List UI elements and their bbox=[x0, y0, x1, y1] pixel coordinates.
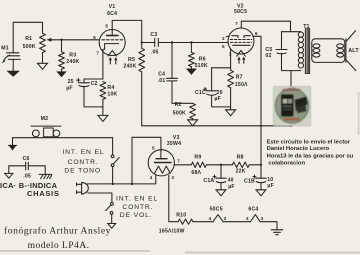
svg-text:C1A: C1A bbox=[203, 178, 214, 184]
V1 cathode bbox=[103, 44, 119, 79]
svg-text:Este circuito lo envio el lect: Este circuito lo envio el lector bbox=[267, 139, 351, 145]
earth ground end of heater string bbox=[271, 230, 283, 235]
speaker ALT bbox=[346, 31, 356, 71]
pin 2 stub + label bbox=[226, 35, 229, 37]
T1 secondary / voice-coil loop bbox=[312, 39, 345, 63]
svg-text:M1: M1 bbox=[1, 46, 9, 52]
chassis ground under M1 bbox=[6, 71, 20, 77]
resistor R6 510K (grid leak) bbox=[190, 43, 192, 53]
V2 heater chevron bbox=[237, 50, 246, 56]
resistor R3 240K bbox=[61, 40, 63, 52]
wire plug bottom to volume switch bbox=[88, 193, 112, 203]
scan streak bottom bbox=[0, 251, 360, 253]
resistor R7 150ohm bbox=[228, 70, 234, 87]
wire M2 rail to tone switch and B- bbox=[13, 138, 113, 146]
svg-text:6: 6 bbox=[93, 35, 96, 40]
svg-text:4: 4 bbox=[150, 175, 153, 180]
node wiper/R3 junction bbox=[60, 39, 62, 41]
svg-text:µF: µF bbox=[228, 184, 235, 190]
svg-text:fonógrafo Arthur Ansley: fonógrafo Arthur Ansley bbox=[4, 226, 111, 237]
svg-text:CHASIS: CHASIS bbox=[27, 189, 60, 198]
svg-text:6C4: 6C4 bbox=[248, 207, 258, 213]
svg-text:C6: C6 bbox=[23, 156, 30, 162]
wire R5 bottom to B+ rail bbox=[141, 72, 143, 126]
V1 plate bar bbox=[106, 35, 119, 37]
svg-text:R1: R1 bbox=[25, 36, 32, 42]
V2 cathode bar bbox=[233, 44, 250, 46]
svg-text:500K: 500K bbox=[23, 44, 36, 50]
svg-text:R6: R6 bbox=[199, 56, 206, 62]
svg-text:R10: R10 bbox=[176, 213, 186, 219]
B- arrow under C1A bbox=[216, 190, 227, 196]
svg-text:R8: R8 bbox=[237, 155, 244, 161]
svg-text:22K: 22K bbox=[236, 168, 246, 174]
capacitor C3 .05 coupling bbox=[142, 42, 229, 44]
svg-text:ALT: ALT bbox=[348, 48, 359, 54]
V3 heater double chevron bbox=[155, 166, 171, 173]
svg-text:R4: R4 bbox=[107, 85, 114, 91]
svg-text:R2: R2 bbox=[175, 102, 182, 108]
B- arrow (filled) under M2 left wire bbox=[8, 144, 16, 146]
svg-text:colaboracion: colaboracion bbox=[268, 161, 305, 167]
svg-text:Hora13 le da las gracias por s: Hora13 le da las gracias por su bbox=[267, 154, 354, 160]
svg-text:6C4: 6C4 bbox=[107, 11, 117, 17]
svg-text:T1: T1 bbox=[303, 24, 309, 30]
svg-text:3: 3 bbox=[261, 216, 264, 221]
svg-text:150Λ: 150Λ bbox=[235, 82, 248, 88]
svg-text:240K: 240K bbox=[123, 63, 136, 69]
resistor R8 22K bbox=[232, 162, 249, 167]
chassis ground under R6 bbox=[186, 69, 197, 75]
svg-text:25: 25 bbox=[68, 79, 74, 85]
svg-text:M2: M2 bbox=[41, 116, 49, 122]
B- arrow under R4/C2 bbox=[98, 115, 109, 121]
V3 plate bar bbox=[156, 158, 168, 160]
resistor R4 10K bbox=[100, 82, 106, 100]
switch volume control bbox=[106, 203, 114, 215]
svg-text:50C5: 50C5 bbox=[234, 9, 247, 15]
potentiometer R2 500K (tone) bbox=[190, 103, 196, 118]
svg-text:CONTR.: CONTR. bbox=[122, 204, 153, 211]
wire primary bottom to B+ rail bbox=[290, 71, 292, 126]
capacitor C1C 20uF bbox=[211, 68, 213, 91]
wire V3 cathode pin7 to R9 bbox=[174, 164, 191, 166]
svg-text:CONTR.: CONTR. bbox=[68, 159, 99, 166]
capacitor C2 25uF bbox=[84, 79, 103, 83]
AC plug bbox=[77, 182, 89, 194]
svg-text:240K: 240K bbox=[66, 59, 79, 65]
svg-text:DE VOL.: DE VOL. bbox=[120, 212, 153, 219]
svg-text:.05: .05 bbox=[151, 49, 159, 55]
svg-text:5: 5 bbox=[105, 24, 108, 29]
svg-text:V3: V3 bbox=[173, 135, 180, 141]
svg-text:C5: C5 bbox=[265, 47, 272, 53]
svg-text:6: 6 bbox=[255, 31, 258, 36]
svg-text:50C5: 50C5 bbox=[210, 207, 223, 213]
resistor R10 165ohm/10W bbox=[178, 219, 193, 224]
svg-text:4: 4 bbox=[209, 216, 212, 221]
V1 heater chevron bbox=[108, 51, 116, 56]
inset photo of radio bbox=[274, 86, 311, 125]
svg-text:3: 3 bbox=[224, 216, 227, 221]
svg-text:modelo LP4A.: modelo LP4A. bbox=[28, 240, 90, 251]
svg-text:4: 4 bbox=[246, 216, 249, 221]
R1 wiper arrow bbox=[50, 39, 62, 41]
svg-text:7: 7 bbox=[96, 51, 99, 56]
T1 primary winding bbox=[282, 32, 301, 71]
svg-text:.05: .05 bbox=[23, 173, 31, 179]
wire wiper junction to V1 grid pin 6 bbox=[62, 39, 100, 41]
capacitor C5 .02 across primary bbox=[281, 32, 283, 71]
B- arrow left of C6 bbox=[4, 173, 13, 178]
V2 beam plates bbox=[232, 36, 250, 38]
V1 heater pin arrows bbox=[110, 60, 116, 64]
pickup M1 bbox=[1, 46, 20, 64]
svg-text:C2: C2 bbox=[91, 81, 98, 87]
potentiometer R1 500K bbox=[40, 33, 46, 52]
svg-text:C1B: C1B bbox=[244, 179, 255, 185]
svg-text:R9: R9 bbox=[194, 154, 201, 160]
B- arrow under R7/C1C bbox=[225, 110, 236, 116]
node R6 tap bbox=[190, 41, 192, 43]
wire V3 plate to AC line bbox=[132, 137, 161, 184]
B- arrow under C1B bbox=[256, 190, 267, 196]
T1 core bbox=[305, 29, 310, 74]
contributor note text bbox=[267, 139, 354, 166]
svg-text:C3: C3 bbox=[150, 32, 157, 38]
op V1 6C4 triode bbox=[93, 4, 125, 79]
svg-text:3: 3 bbox=[171, 175, 174, 180]
capacitor C4 .01 bbox=[171, 43, 173, 79]
wire V2 cathode down bbox=[212, 49, 231, 68]
op V3 35W4 rectifier bbox=[148, 135, 181, 180]
capacitor C1A 40uF bbox=[220, 165, 222, 178]
wire V1 plate to top rail and down to R5/C3 node bbox=[112, 20, 142, 48]
chassis ground under R3 bbox=[56, 71, 67, 77]
6C4 heater bbox=[250, 215, 260, 222]
wire M1 top to R1 top bbox=[13, 22, 42, 52]
V2 heater pin arrows bbox=[239, 59, 244, 63]
capacitor C1B 10uF bbox=[260, 165, 262, 178]
svg-text:500K: 500K bbox=[173, 110, 186, 116]
resistor R9 68ohm bbox=[191, 162, 206, 167]
B- arrow under R2 bbox=[187, 120, 198, 126]
caption fonografo Arthur Ansley bbox=[4, 226, 111, 251]
motor M2 bbox=[31, 116, 61, 137]
svg-text:.01: .01 bbox=[158, 78, 166, 84]
svg-text:Daniel Horacio Lucero: Daniel Horacio Lucero bbox=[267, 146, 330, 152]
resistor R5 240K (plate load) bbox=[139, 48, 145, 72]
svg-text:10K: 10K bbox=[107, 92, 117, 98]
svg-text:2: 2 bbox=[222, 36, 225, 41]
switch tone control bbox=[111, 155, 119, 167]
wire M1 bottom bbox=[12, 60, 14, 71]
B+ rail wire bbox=[142, 125, 291, 127]
svg-text:35W4: 35W4 bbox=[167, 141, 181, 147]
svg-text:R3: R3 bbox=[69, 53, 76, 59]
V2 grids dashed bbox=[230, 39, 252, 41]
node plate/C3 junction bbox=[141, 41, 143, 43]
svg-text:R5: R5 bbox=[128, 57, 135, 63]
svg-text:INT. EN EL: INT. EN EL bbox=[116, 195, 158, 202]
svg-text:µF: µF bbox=[267, 183, 274, 189]
svg-text:R7: R7 bbox=[236, 75, 243, 81]
chassis hatch right of C6 bbox=[39, 174, 52, 178]
svg-text:C4: C4 bbox=[158, 72, 165, 78]
svg-text:INT. EN EL: INT. EN EL bbox=[62, 149, 104, 156]
svg-text:7: 7 bbox=[235, 21, 238, 26]
wire V2 plate to T1 primary top bbox=[241, 21, 290, 32]
svg-text:µF: µF bbox=[66, 86, 73, 92]
op V2 50C5 output pentode bbox=[222, 4, 258, 64]
svg-text:510K: 510K bbox=[195, 63, 208, 69]
capacitor C6 .05 line bypass bbox=[26, 162, 29, 170]
V1 grid (dashed) bbox=[102, 39, 123, 41]
50C5 heater bbox=[213, 215, 223, 222]
svg-text:165Λ/10W: 165Λ/10W bbox=[159, 229, 185, 235]
wire V2 screen pin6 down to B+ rail and C1B node bbox=[253, 36, 261, 165]
svg-text:C1C: C1C bbox=[195, 90, 206, 96]
V3 cathode bar bbox=[154, 162, 172, 164]
svg-text:40: 40 bbox=[228, 178, 234, 184]
B- arrow under R1 bbox=[37, 63, 48, 69]
wire V3 pin4 to AC line bbox=[87, 175, 155, 184]
svg-text:µF: µF bbox=[214, 96, 221, 102]
svg-text:V1: V1 bbox=[109, 4, 116, 10]
svg-text:68Λ: 68Λ bbox=[191, 170, 201, 176]
svg-text:5: 5 bbox=[152, 145, 155, 150]
svg-text:7: 7 bbox=[177, 159, 180, 164]
node C4 tap bbox=[171, 41, 173, 43]
svg-text:5: 5 bbox=[222, 44, 225, 49]
svg-text:DE TONO: DE TONO bbox=[64, 168, 101, 175]
B- arrow under volume switch bbox=[107, 224, 116, 229]
wire V3 pin3 to heater string bbox=[169, 175, 178, 222]
wire R1 bottom bbox=[42, 53, 44, 64]
scan streak right edge bbox=[358, 92, 360, 135]
svg-text:02: 02 bbox=[265, 53, 271, 59]
